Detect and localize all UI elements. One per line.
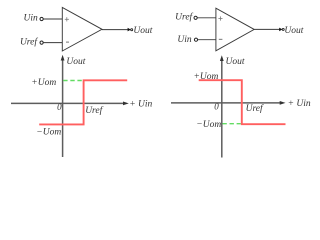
terminal Uout (right) xyxy=(282,28,284,30)
svg-text:Uin: Uin xyxy=(24,13,39,23)
svg-text:Uref: Uref xyxy=(20,37,38,48)
svg-text:Uout: Uout xyxy=(284,26,303,36)
svg-text:Uout: Uout xyxy=(133,26,152,36)
svg-text:Uref: Uref xyxy=(175,12,193,23)
svg-text:+Uom: +Uom xyxy=(31,78,56,88)
svg-text:0: 0 xyxy=(57,102,62,112)
svg-text:Uout: Uout xyxy=(66,57,85,67)
svg-text:−Uom: −Uom xyxy=(36,127,61,137)
terminal Uin (right) xyxy=(194,38,197,41)
svg-text:Uin: Uin xyxy=(177,35,192,45)
wire Uref to + input xyxy=(197,17,216,19)
x-axis (+Uin) left graph xyxy=(11,102,124,104)
output arrow (right) xyxy=(279,28,282,32)
x-axis arrowhead (right) xyxy=(280,101,286,105)
y-axis arrowhead (right) xyxy=(220,55,224,61)
wire Uin to op-amp + input xyxy=(43,18,62,20)
svg-text:+ Uin: + Uin xyxy=(129,99,152,109)
terminal Uin xyxy=(40,17,43,20)
terminal Uout (left) xyxy=(131,29,133,31)
terminal Uref (right) xyxy=(194,16,197,19)
x-axis (+Uin) right graph xyxy=(171,102,281,104)
dashed level -Uom (green) xyxy=(222,123,240,125)
svg-text:+Uom: +Uom xyxy=(194,72,219,82)
op-amp U1 (left comparator triangle) xyxy=(62,7,102,51)
x-axis arrowhead xyxy=(123,102,129,106)
svg-text:Uref: Uref xyxy=(85,105,103,116)
pin + (noninverting) xyxy=(65,17,69,21)
svg-text:−Uom: −Uom xyxy=(196,120,221,130)
wire Uref to op-amp - input xyxy=(43,42,62,44)
pin - (inverting) xyxy=(66,41,69,43)
transfer curve (red step, left) xyxy=(39,80,127,124)
output arrow xyxy=(128,28,131,32)
svg-text:Uref: Uref xyxy=(246,103,264,114)
op-amp U2 (right comparator triangle) xyxy=(216,8,254,51)
y-axis (Uout) left graph xyxy=(62,60,64,158)
wire op-amp output xyxy=(102,29,128,31)
svg-text:Uout: Uout xyxy=(226,57,245,67)
transfer curve (red step, right) xyxy=(199,80,286,124)
y-axis (Uout) right graph xyxy=(221,60,223,158)
pin - (inverting, right) xyxy=(219,38,223,40)
y-axis arrowhead xyxy=(61,55,65,61)
svg-text:0: 0 xyxy=(214,102,219,112)
svg-text:+ Uin: + Uin xyxy=(288,99,311,109)
wire op-amp output (right) xyxy=(254,28,280,30)
pin + (noninverting, right) xyxy=(218,16,222,20)
wire Uin to - input xyxy=(198,39,216,41)
dashed level +Uom (green) xyxy=(63,80,82,82)
terminal Uref xyxy=(40,41,43,44)
